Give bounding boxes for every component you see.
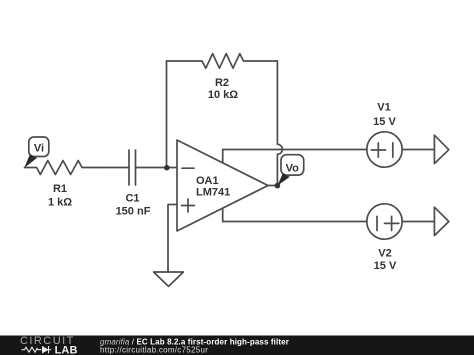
output port arrow 2 xyxy=(434,207,448,235)
svg-text:15 V: 15 V xyxy=(374,260,397,272)
wire xyxy=(402,221,434,223)
ground xyxy=(154,272,184,286)
svg-text:R1: R1 xyxy=(53,183,67,195)
svg-text:V2: V2 xyxy=(378,248,391,260)
svg-text:Vi: Vi xyxy=(34,142,44,154)
flag Vo xyxy=(281,155,304,175)
svg-text:R2: R2 xyxy=(215,77,229,89)
wire xyxy=(136,167,178,169)
svg-text:LAB: LAB xyxy=(55,344,78,355)
op-amp OA1 minus pin xyxy=(182,167,194,169)
logo resistor squiggle xyxy=(22,347,40,352)
flag Vo tail xyxy=(277,173,290,186)
wire xyxy=(268,185,277,187)
svg-text:1 kΩ: 1 kΩ xyxy=(48,197,72,209)
resistor R2 xyxy=(167,54,278,69)
logo diode triangle xyxy=(42,346,49,354)
wire xyxy=(168,205,177,273)
flag Vi xyxy=(29,137,49,157)
voltage source V2 xyxy=(367,204,402,239)
wire xyxy=(223,221,367,223)
op-amp V+ stub xyxy=(222,150,224,163)
wire xyxy=(277,61,282,186)
wire xyxy=(402,149,434,151)
V1 plus sign xyxy=(371,143,385,157)
svg-text:OA1: OA1 xyxy=(196,175,219,187)
output port arrow 1 xyxy=(434,135,448,163)
svg-text:V1: V1 xyxy=(377,102,390,114)
svg-text:10 kΩ: 10 kΩ xyxy=(208,89,238,101)
V2 plus sign xyxy=(385,216,399,230)
footer bar xyxy=(0,336,474,355)
flag Vi tail xyxy=(24,154,37,168)
svg-text:http://circuitlab.com/c7525ur: http://circuitlab.com/c7525ur xyxy=(100,345,208,354)
wire xyxy=(96,167,129,169)
wire xyxy=(166,61,168,168)
node junction at C1/R2 xyxy=(164,165,170,171)
svg-text:150 nF: 150 nF xyxy=(116,206,151,218)
svg-text:Vo: Vo xyxy=(286,162,300,174)
op-amp V- stub xyxy=(222,208,224,221)
voltage source V1 xyxy=(367,132,402,167)
wire xyxy=(223,149,367,151)
node Vo junction xyxy=(275,183,281,189)
svg-text:15 V: 15 V xyxy=(373,116,396,128)
V1 minus bar xyxy=(392,143,394,157)
logo diode symbol xyxy=(40,346,52,353)
capacitor C1 xyxy=(129,150,136,185)
V2 minus bar xyxy=(376,216,378,230)
resistor R1 xyxy=(25,161,97,175)
op-amp OA1 xyxy=(177,140,268,231)
svg-text:C1: C1 xyxy=(125,193,139,205)
svg-text:LM741: LM741 xyxy=(196,187,230,199)
op-amp OA1 plus pin xyxy=(182,199,195,212)
